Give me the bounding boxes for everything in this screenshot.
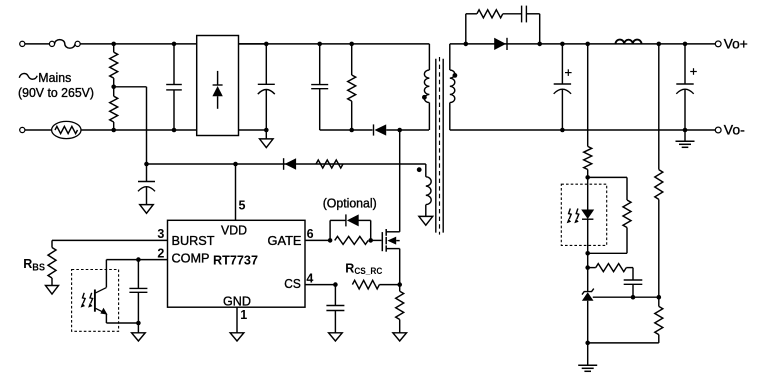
- svg-text:VDD: VDD: [221, 223, 247, 238]
- svg-text:COMP: COMP: [172, 251, 210, 266]
- svg-text:Mains: Mains: [38, 70, 71, 85]
- svg-text:(Optional): (Optional): [323, 195, 377, 210]
- svg-text:3: 3: [157, 227, 164, 241]
- svg-text:CS: CS: [284, 276, 301, 291]
- svg-text:Vo+: Vo+: [724, 37, 748, 52]
- svg-text:GND: GND: [223, 293, 251, 308]
- svg-text:5: 5: [239, 199, 246, 213]
- svg-text:GATE: GATE: [268, 233, 302, 248]
- svg-text:6: 6: [307, 227, 314, 241]
- svg-text:RT7737: RT7737: [213, 253, 258, 268]
- svg-text:(90V to 265V): (90V to 265V): [18, 85, 94, 100]
- svg-text:4: 4: [306, 272, 313, 286]
- svg-text:2: 2: [157, 246, 164, 260]
- svg-text:Vo-: Vo-: [724, 123, 745, 138]
- svg-text:BURST: BURST: [172, 233, 215, 248]
- svg-text:1: 1: [240, 308, 247, 322]
